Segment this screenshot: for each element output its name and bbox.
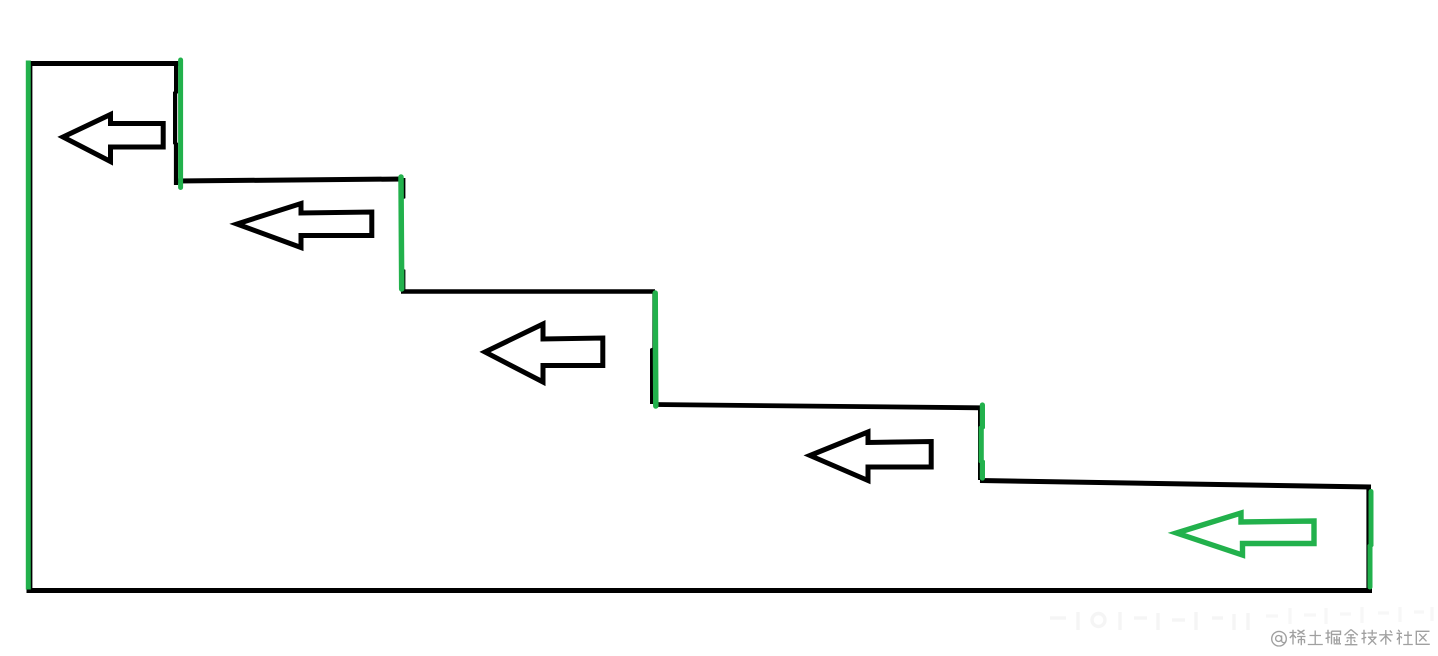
riser 4 green [981, 405, 982, 478]
arrow 1 (black, step 1) [63, 115, 163, 162]
riser 2 black [401, 178, 403, 290]
术 [1379, 630, 1393, 645]
riser 1 black [175, 62, 176, 186]
riser 4 black [978, 407, 982, 480]
土 [1308, 631, 1323, 645]
掘 [1326, 630, 1342, 644]
区 [1416, 631, 1430, 644]
riser 5 green [1370, 492, 1371, 588]
riser 3 green [652, 293, 658, 406]
riser 5 black [1366, 486, 1370, 591]
arrow 5 (green, step 5) [1177, 513, 1315, 555]
arrow 4 (black, step 4) [810, 432, 931, 481]
watermark text "@稀土掘金技术社区" [1272, 630, 1430, 647]
step 4 tread [654, 405, 980, 408]
arrow 3 (black, step 3) [485, 324, 603, 382]
step 3 tread [401, 289, 655, 294]
技 [1362, 630, 1378, 645]
step 5 tread [980, 481, 1371, 488]
faint ghost watermark row [1050, 612, 1248, 630]
稀 [1290, 630, 1306, 645]
left wall green [26, 61, 31, 590]
left wall black underlay [29, 62, 32, 590]
arrow 2 (black, step 2) [237, 204, 372, 248]
金 [1345, 630, 1358, 645]
社 [1397, 630, 1413, 645]
step 2 tread [176, 179, 403, 181]
riser 2 green [398, 177, 404, 289]
riser 1 green [178, 60, 183, 188]
faint ghost watermark continuation right [1266, 607, 1432, 624]
top line [26, 61, 181, 66]
bottom line [27, 588, 1373, 593]
@ [1272, 631, 1287, 646]
riser 3 black [652, 292, 654, 404]
